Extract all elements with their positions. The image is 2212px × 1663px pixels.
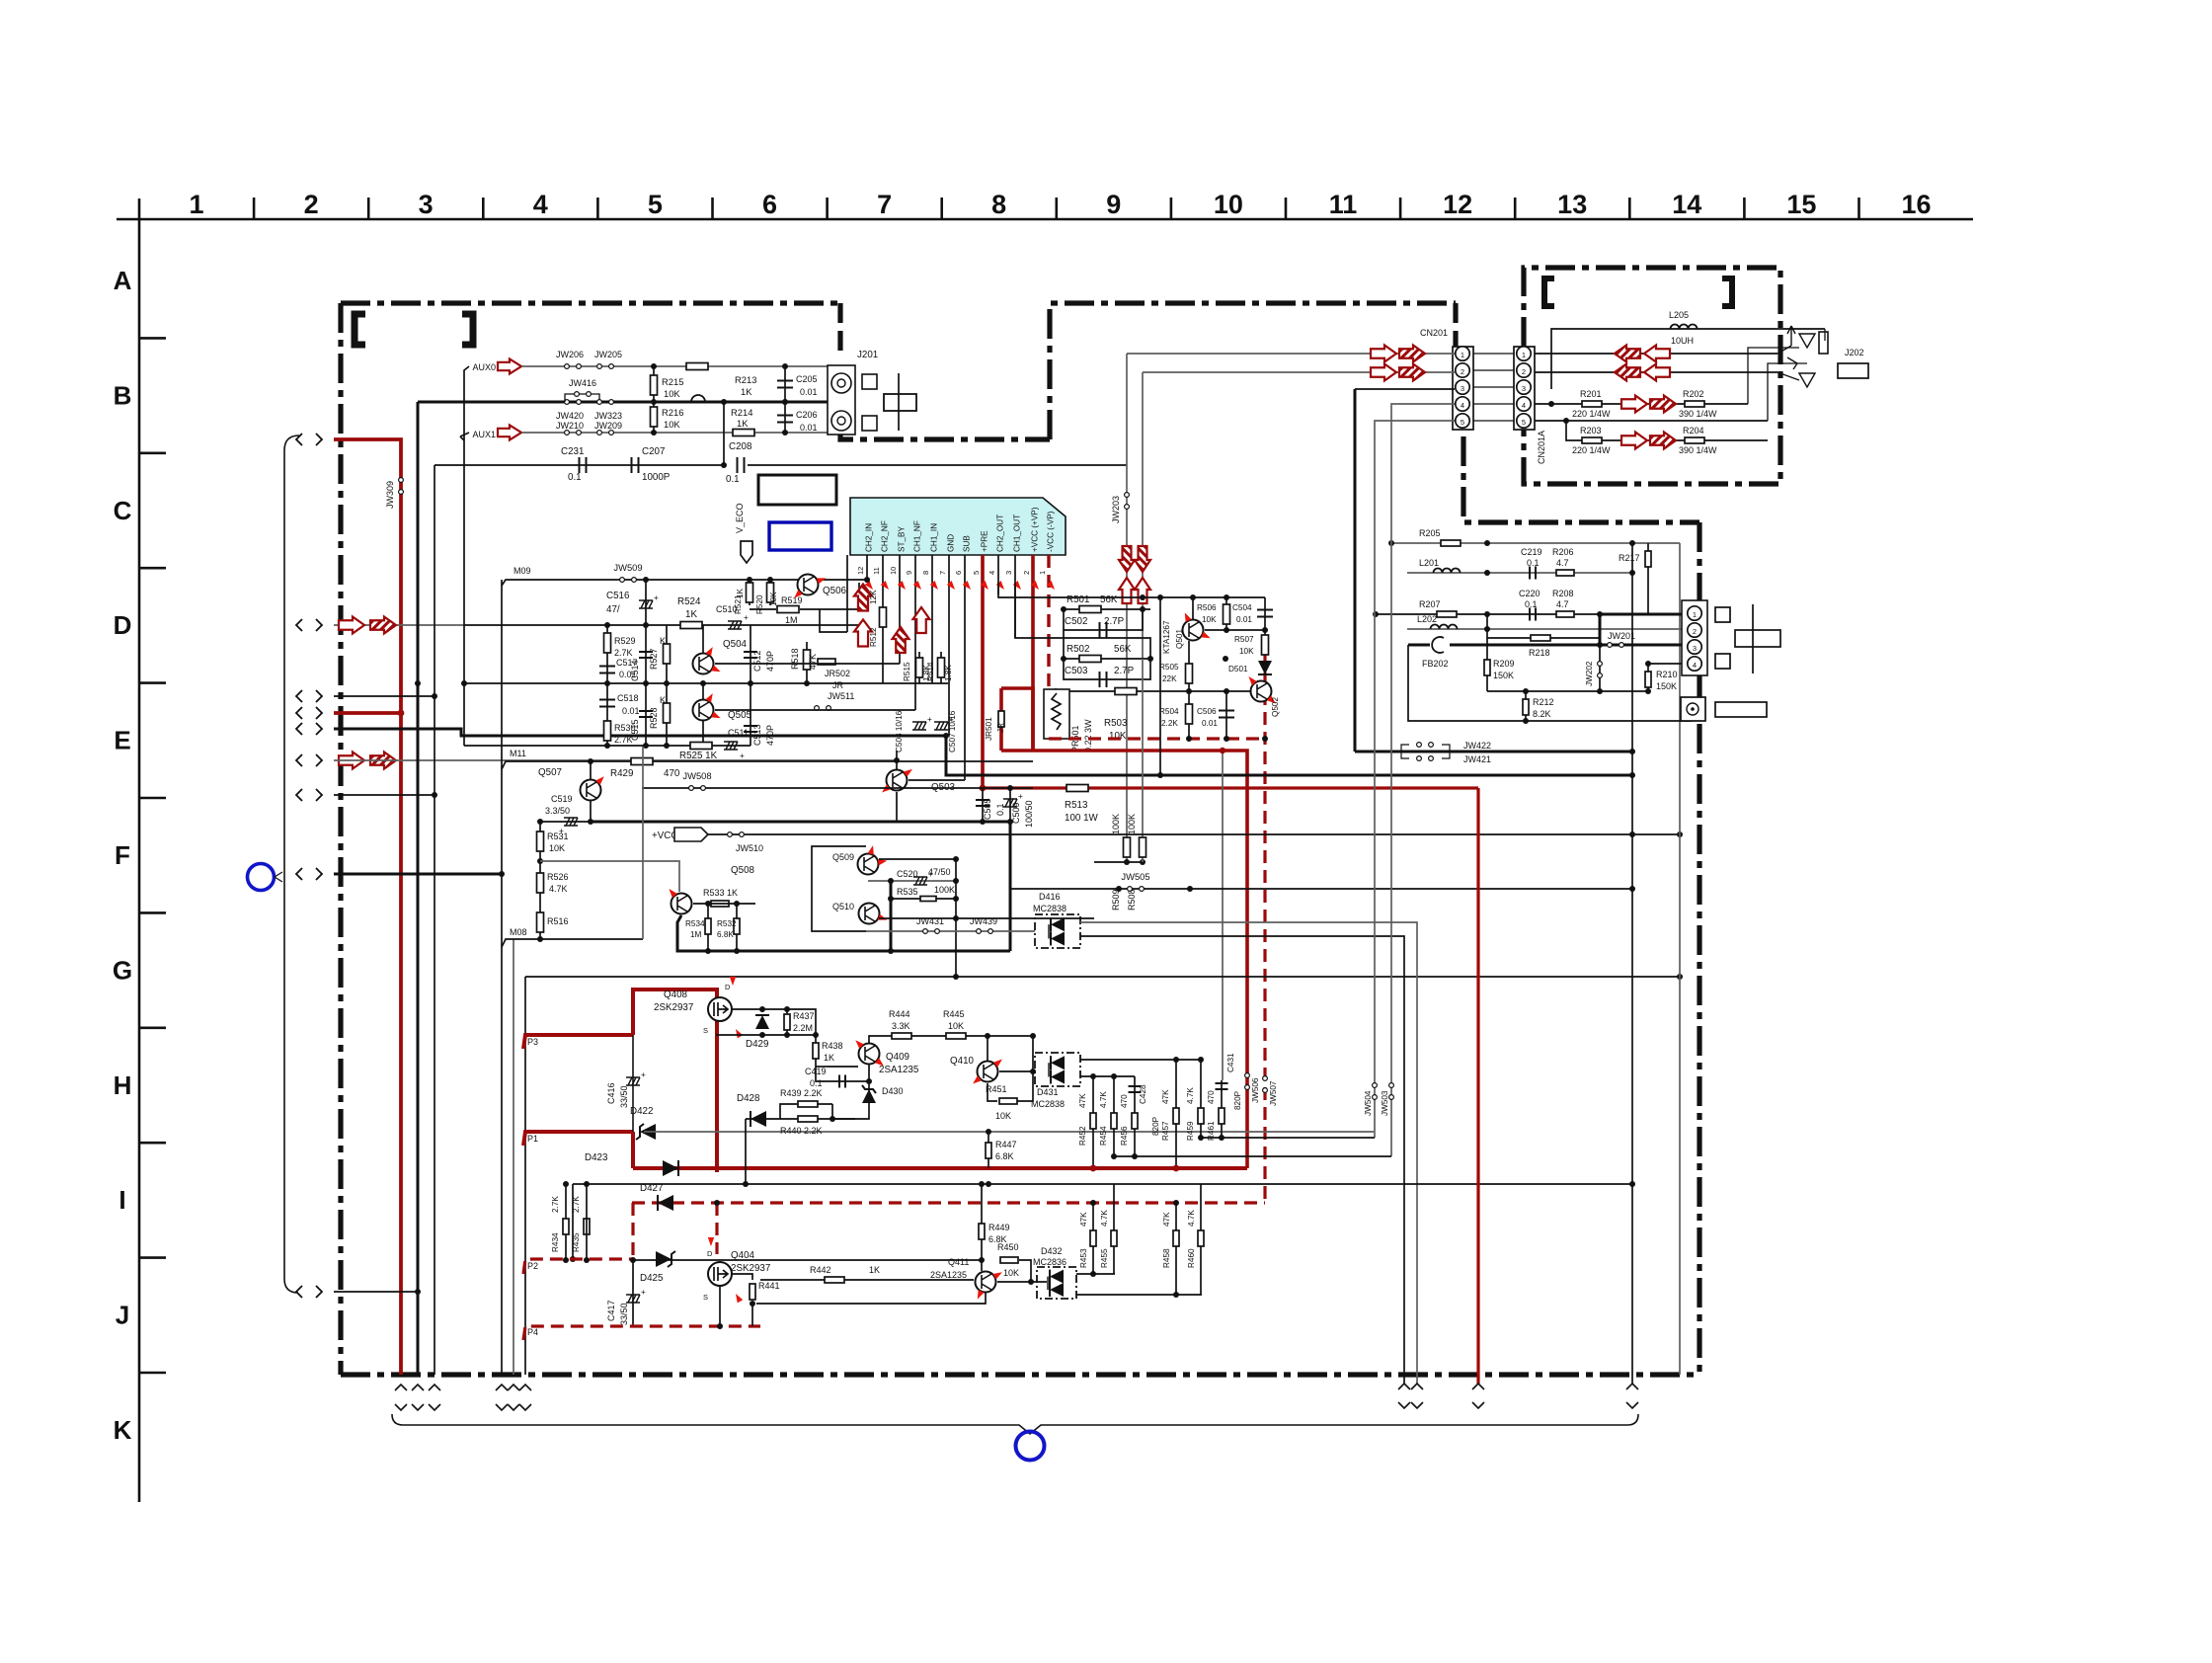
- svg-text:470: 470: [664, 768, 680, 779]
- bracket [ top-right: [1544, 278, 1554, 306]
- svg-text:220 1/4W: 220 1/4W: [1572, 409, 1611, 419]
- svg-text:4.7K: 4.7K: [1100, 1210, 1109, 1227]
- svg-text:470P: 470P: [765, 651, 775, 672]
- wire AUX1: [521, 432, 834, 434]
- resistor R450: [1000, 1257, 1018, 1263]
- svg-text:C513: C513: [752, 724, 762, 746]
- svg-text:2SK2937: 2SK2937: [654, 1002, 693, 1013]
- svg-text:10K: 10K: [1239, 647, 1254, 656]
- svg-text:0.1: 0.1: [726, 474, 740, 485]
- svg-text:C419: C419: [805, 1067, 827, 1076]
- svg-text:1.8K: 1.8K: [944, 665, 953, 681]
- svg-text:D427: D427: [640, 1183, 663, 1194]
- svg-text:JW509: JW509: [613, 562, 642, 573]
- off-page chevron r3: [296, 690, 322, 702]
- resistor R206: [1556, 570, 1574, 576]
- svg-text:4: 4: [1461, 401, 1464, 410]
- bus D row: [464, 624, 859, 626]
- svg-text:150K: 150K: [1493, 671, 1514, 680]
- svg-text:C512: C512: [752, 650, 762, 672]
- svg-text:C515: C515: [630, 719, 640, 741]
- capacitor C504: [1264, 597, 1266, 630]
- svg-text:10K: 10K: [664, 419, 680, 430]
- frame left column: [138, 198, 141, 1502]
- svg-text:2SA1235: 2SA1235: [930, 1270, 967, 1280]
- capacitor C513: [750, 683, 751, 746]
- svg-text:0.1: 0.1: [1525, 599, 1538, 609]
- arrow open JW203a: [1119, 578, 1135, 603]
- svg-text:D501: D501: [1228, 665, 1248, 673]
- jumper JW416: [565, 394, 599, 402]
- bus E2 row: [464, 745, 750, 747]
- thick wire Q508 out: [890, 881, 893, 951]
- border right edge: [1697, 522, 1701, 1375]
- resistor JR502: [818, 659, 835, 665]
- resistor R208: [1556, 611, 1574, 617]
- border main block bottom edge: [341, 1372, 1698, 1377]
- resistor R439: [780, 1104, 832, 1119]
- capacitor C520: [868, 880, 956, 882]
- svg-text:R444: R444: [889, 1009, 910, 1019]
- svg-text:4.7K: 4.7K: [1099, 1091, 1108, 1108]
- svg-text:33/50: 33/50: [619, 1085, 629, 1108]
- resistor R509: [1124, 837, 1131, 857]
- svg-text:+VCC (+VP): +VCC (+VP): [1031, 507, 1040, 552]
- box Q508 bracket: [812, 846, 866, 931]
- jumper JW203: [1125, 493, 1130, 510]
- svg-text:R518: R518: [790, 648, 800, 670]
- svg-text:H: H: [114, 1070, 132, 1100]
- capacitor C512: [750, 625, 751, 683]
- svg-text:R213: R213: [735, 374, 756, 385]
- red power rail top: [633, 990, 717, 1172]
- svg-text:Q506: Q506: [823, 586, 847, 596]
- capacitor C502: [1064, 609, 1143, 630]
- svg-text:JR: JR: [996, 723, 1005, 733]
- svg-text:CH2_IN: CH2_IN: [865, 523, 874, 552]
- resistor R435: [586, 1203, 588, 1259]
- long vertical wire x520: [513, 939, 514, 1375]
- svg-text:3: 3: [1693, 644, 1697, 653]
- svg-text:6.8K: 6.8K: [995, 1151, 1014, 1161]
- svg-text:R456: R456: [1120, 1126, 1129, 1146]
- svg-text:3: 3: [1461, 384, 1464, 393]
- svg-text:R512: R512: [869, 627, 878, 647]
- svg-text:10K: 10K: [1202, 615, 1217, 624]
- svg-text:3: 3: [1004, 571, 1013, 575]
- svg-text:14: 14: [1672, 190, 1701, 219]
- diode D428: [746, 1118, 855, 1120]
- border J201 notch: [837, 303, 842, 356]
- wire Q509 collector: [879, 858, 956, 860]
- arrow hatch ja1: [1615, 346, 1640, 362]
- svg-text:R503: R503: [1104, 718, 1128, 729]
- svg-text:5: 5: [1461, 418, 1464, 427]
- svg-text:M09: M09: [513, 566, 531, 576]
- svg-text:D428: D428: [737, 1093, 760, 1104]
- svg-text:100 1W: 100 1W: [1065, 813, 1099, 824]
- mosfet Q408: [708, 997, 732, 1021]
- arrow hatch D: [370, 617, 396, 634]
- svg-text:AUX1: AUX1: [472, 430, 496, 439]
- svg-text:0.01: 0.01: [622, 706, 640, 716]
- svg-text:JW439: JW439: [970, 916, 997, 926]
- svg-text:150K: 150K: [1656, 681, 1677, 691]
- arrow open D-row right2: [913, 607, 930, 633]
- vertical x1653: [1631, 543, 1633, 1375]
- svg-text:JW511: JW511: [828, 691, 854, 701]
- resistor R533: [711, 901, 729, 907]
- resistor R461: [1221, 1080, 1223, 1138]
- svg-text:2: 2: [1693, 627, 1697, 636]
- IC pin 11 stub: [882, 555, 884, 683]
- resistor R445: [946, 1033, 966, 1039]
- svg-text:100/50: 100/50: [1024, 800, 1034, 828]
- svg-text:JW421: JW421: [1463, 754, 1491, 764]
- arrow hatch r203: [1650, 433, 1676, 449]
- bottom exit wires left: [395, 1385, 407, 1410]
- svg-text:I: I: [118, 1185, 125, 1215]
- svg-text:R453: R453: [1079, 1248, 1088, 1268]
- svg-text:D: D: [725, 983, 731, 991]
- capacitor C431: [1216, 1083, 1228, 1089]
- arrow open ja2: [1644, 364, 1670, 381]
- svg-text:16: 16: [1901, 190, 1931, 219]
- svg-text:2: 2: [304, 190, 319, 219]
- svg-text:JW309: JW309: [385, 481, 395, 509]
- resistor R513: [1066, 785, 1088, 792]
- resistor R534: [707, 904, 709, 951]
- resistor R452: [1092, 1076, 1094, 1168]
- arrow open pin12: [854, 620, 872, 647]
- svg-text:2.2K: 2.2K: [1161, 719, 1178, 728]
- svg-text:R435: R435: [572, 1232, 581, 1252]
- bus thick black y745: [946, 736, 1632, 775]
- wire AUX0: [464, 366, 469, 440]
- svg-text:CH1_NF: CH1_NF: [913, 520, 922, 552]
- resistor R217: [1647, 543, 1649, 573]
- wire chevron D row with arrows: [334, 624, 464, 626]
- svg-text:47/50: 47/50: [928, 867, 951, 877]
- svg-text:4: 4: [987, 571, 996, 575]
- svg-text:JW503: JW503: [1381, 1090, 1389, 1116]
- svg-text:15: 15: [1786, 190, 1816, 219]
- resistor R440: [798, 1116, 818, 1122]
- svg-text:470P: 470P: [765, 725, 775, 746]
- diode D427: [658, 1195, 673, 1211]
- resistor R449: [981, 1184, 983, 1271]
- svg-text:5: 5: [972, 571, 981, 575]
- wire Q404 source: [719, 1286, 721, 1326]
- svg-text:JW431: JW431: [916, 916, 944, 926]
- long vertical wire x470 from AUX1: [460, 436, 464, 746]
- svg-text:0.1: 0.1: [1527, 558, 1540, 568]
- svg-text:R204: R204: [1683, 426, 1704, 436]
- inductor L205: [1551, 329, 1825, 389]
- svg-text:J202: J202: [1845, 348, 1864, 357]
- vertical x870 wires from IC: [820, 583, 859, 609]
- bus y845 extension: [1629, 831, 1635, 837]
- svg-text:R218: R218: [1529, 648, 1550, 658]
- long vertical wire x440: [434, 465, 435, 1375]
- svg-text:Q501: Q501: [1175, 629, 1184, 649]
- capacitor C206: [784, 402, 786, 433]
- resistor R526: [539, 861, 541, 904]
- svg-text:R509: R509: [1111, 889, 1121, 911]
- svg-text:4.7K: 4.7K: [1186, 1087, 1195, 1104]
- bias network frame wire: [1159, 597, 1161, 775]
- jumper JW439: [977, 929, 993, 934]
- svg-text:JW420: JW420: [556, 411, 584, 421]
- arrow open E: [339, 752, 364, 769]
- thick vertical x1620: [1599, 614, 1602, 645]
- svg-text:1K: 1K: [736, 588, 745, 598]
- svg-text:C416: C416: [606, 1082, 616, 1104]
- resistor R218: [1487, 637, 1600, 639]
- thick vertical x1023: [1009, 822, 1012, 951]
- svg-text:0.01: 0.01: [1236, 615, 1252, 624]
- border main block left edge: [338, 303, 343, 1375]
- svg-text:D422: D422: [630, 1106, 653, 1117]
- capacitor C505: [982, 788, 984, 822]
- capacitor C208: [738, 457, 745, 473]
- svg-text:6: 6: [762, 190, 777, 219]
- svg-text:R532: R532: [717, 919, 737, 928]
- wire y1152: [1201, 1137, 1375, 1139]
- svg-text:R526: R526: [547, 872, 569, 882]
- bottom exit wires right: [1476, 788, 1479, 1384]
- wire chevron J: [334, 1291, 418, 1293]
- wire x1238 to C431: [1222, 751, 1224, 1080]
- diode D425 zener: [656, 1251, 675, 1267]
- resistor R515: [918, 652, 920, 683]
- svg-text:K: K: [114, 1415, 132, 1445]
- svg-text:0.1: 0.1: [568, 472, 582, 483]
- svg-text:R209: R209: [1493, 659, 1515, 669]
- resistor R524: [680, 622, 702, 629]
- wire CH2_OUT to R501: [998, 583, 1265, 597]
- svg-text:C516: C516: [606, 591, 630, 601]
- svg-text:Q505: Q505: [728, 710, 752, 721]
- jumper JW206: [565, 364, 582, 369]
- svg-text:C207: C207: [642, 446, 665, 457]
- ferrite FB202: [1408, 644, 1430, 647]
- resistor R504: [1188, 691, 1190, 739]
- svg-text:R525 1K: R525 1K: [679, 751, 718, 761]
- svg-text:R458: R458: [1162, 1248, 1171, 1268]
- svg-text:CH1_IN: CH1_IN: [930, 523, 939, 552]
- wire SUB to Q503: [908, 779, 965, 781]
- diode D423 red row: [633, 1166, 1247, 1170]
- arrow open cn1: [1371, 346, 1396, 362]
- bus G row: [525, 976, 1679, 978]
- wires CN201 left side: [1127, 353, 1455, 355]
- svg-text:A: A: [114, 266, 132, 295]
- wire CH1_OUT row: [1015, 583, 1150, 659]
- svg-text:6.8K: 6.8K: [717, 930, 734, 939]
- resistor R521: [749, 580, 750, 605]
- red PRE junction: [980, 785, 987, 792]
- svg-text:C507 10/16: C507 10/16: [948, 710, 957, 752]
- svg-text:D: D: [707, 1249, 713, 1258]
- capacitor C519: [590, 801, 592, 822]
- svg-text:C220: C220: [1519, 589, 1540, 598]
- jumper JW504: [1373, 1083, 1378, 1100]
- resistor R454: [1113, 1076, 1115, 1156]
- off-page chevron r6: [296, 754, 322, 766]
- connector CN201 left: [1453, 347, 1473, 430]
- svg-text:FB202: FB202: [1422, 659, 1449, 669]
- crossover hop: [691, 395, 705, 402]
- cable bundle brace: [284, 436, 299, 1293]
- svg-text:4: 4: [1693, 661, 1697, 670]
- svg-text:R451: R451: [986, 1084, 1007, 1094]
- svg-text:R438: R438: [822, 1041, 843, 1051]
- wire C231 row: [434, 464, 724, 466]
- svg-text:R203: R203: [1580, 426, 1602, 436]
- long vertical x1701: [1679, 543, 1681, 1375]
- jumper JW209: [597, 431, 614, 436]
- wire to Q511 base: [540, 861, 679, 892]
- arrow open r203: [1621, 433, 1647, 449]
- svg-text:8: 8: [921, 571, 930, 575]
- svg-text:S: S: [703, 1293, 708, 1302]
- svg-text:MC2838: MC2838: [1033, 904, 1066, 913]
- capacitor C219: [1530, 567, 1536, 580]
- thick red +VCC path: [1001, 688, 1033, 751]
- arrow hatch JW203b: [1135, 546, 1150, 572]
- capacitor C518: [606, 683, 608, 746]
- svg-text:2: 2: [1461, 367, 1464, 376]
- inductor L201: [1407, 572, 1632, 574]
- svg-text:D: D: [114, 610, 132, 640]
- IC pin 2 stub: [1031, 555, 1035, 751]
- svg-text:+: +: [1018, 792, 1023, 801]
- svg-text:C205: C205: [796, 374, 818, 384]
- resistor R518: [806, 642, 808, 683]
- svg-text:R205: R205: [1419, 528, 1441, 538]
- arrow AUX0: [498, 359, 521, 374]
- svg-text:R529: R529: [614, 636, 636, 646]
- svg-text:12: 12: [1443, 190, 1472, 219]
- resistor R451: [987, 1083, 997, 1101]
- svg-text:L205: L205: [1669, 310, 1689, 320]
- svg-text:R460: R460: [1187, 1248, 1196, 1268]
- transistor Q410: [978, 1062, 998, 1082]
- border right edge via CN201: [1453, 303, 1458, 348]
- svg-text:470: 470: [1120, 1094, 1129, 1108]
- resistor R202: [1685, 401, 1704, 407]
- wire y1172: [1114, 1155, 1391, 1157]
- svg-text:R434: R434: [551, 1232, 560, 1252]
- resistor R455: [1113, 1184, 1115, 1274]
- IC hybrid block: [850, 498, 1066, 555]
- wire chevron E4 with arrows: [334, 759, 897, 761]
- svg-text:C231: C231: [561, 446, 584, 457]
- svg-text:4: 4: [533, 190, 548, 219]
- bus y1199: [573, 1183, 1632, 1185]
- off-page chevron r5: [296, 723, 322, 735]
- capacitor C506: [1225, 691, 1227, 739]
- svg-text:8: 8: [991, 190, 1006, 219]
- capacitor C207: [632, 457, 639, 473]
- resistor R213: [686, 363, 708, 370]
- svg-text:JW508: JW508: [682, 770, 711, 781]
- resistor R203: [1582, 437, 1602, 443]
- resistor R501: [1064, 608, 1150, 610]
- svg-text:C503: C503: [1065, 666, 1088, 676]
- resistor R210: [1647, 664, 1649, 691]
- IC box blank: [758, 475, 836, 505]
- wire Q502 base row: [1160, 690, 1250, 692]
- svg-text:JW505: JW505: [1121, 871, 1149, 882]
- capacitor C503: [1064, 659, 1150, 679]
- IC pin 12 stub: [866, 555, 868, 580]
- svg-text:1K: 1K: [824, 1053, 834, 1063]
- resistor R458: [1175, 1203, 1177, 1295]
- svg-text:1: 1: [1693, 610, 1697, 619]
- diode D430 zener: [868, 1065, 870, 1104]
- svg-text:7: 7: [877, 190, 892, 219]
- svg-text:CN201A: CN201A: [1537, 431, 1546, 464]
- svg-text:2.7P: 2.7P: [1104, 616, 1125, 627]
- resistor R215: [653, 366, 655, 402]
- arrow open cn2: [1371, 364, 1396, 381]
- svg-text:C: C: [114, 496, 132, 525]
- svg-text:JW205: JW205: [594, 350, 622, 359]
- thick wire to CN202 pin1: [1600, 613, 1682, 616]
- svg-text:C502: C502: [1065, 616, 1087, 627]
- svg-text:33/50: 33/50: [619, 1303, 629, 1325]
- arrow open JW203b: [1135, 578, 1150, 603]
- svg-text:JW416: JW416: [569, 378, 596, 388]
- jumper JW309: [399, 478, 404, 495]
- arrow hatch r201: [1650, 396, 1676, 413]
- resistor R456: [1134, 1076, 1136, 1156]
- svg-text:CH1_OUT: CH1_OUT: [1013, 515, 1022, 552]
- svg-text:R507: R507: [1234, 635, 1254, 644]
- wire pin4 R201 row: [1548, 401, 1554, 407]
- IC pin 6 stub: [964, 555, 966, 780]
- wires from D416: [1080, 922, 1417, 1385]
- resistor R214: [733, 430, 754, 436]
- svg-text:CH2_OUT: CH2_OUT: [996, 515, 1005, 552]
- svg-text:12: 12: [856, 567, 865, 575]
- transistor Q506: [798, 575, 819, 595]
- IC pin 10 stub: [899, 555, 901, 664]
- svg-text:R535: R535: [897, 887, 918, 897]
- transistor Q510: [859, 904, 880, 924]
- IC pin 8 stub: [931, 555, 933, 683]
- bracket ] main: [462, 314, 473, 345]
- svg-text:K: K: [660, 695, 666, 705]
- arrow AUX1: [498, 426, 521, 440]
- bracket ] top-right: [1722, 278, 1732, 306]
- svg-text:47K: 47K: [1161, 1089, 1170, 1104]
- svg-text:390 1/4W: 390 1/4W: [1679, 445, 1717, 455]
- arrow hatch ja2: [1615, 364, 1640, 381]
- jumper JW323: [597, 400, 614, 405]
- svg-text:CH2_NF: CH2_NF: [881, 520, 890, 552]
- svg-text:E: E: [114, 726, 130, 755]
- ladder2 bottom output wire: [1076, 1294, 1202, 1296]
- svg-text:L201: L201: [1419, 558, 1439, 568]
- svg-text:ST_BY: ST_BY: [898, 526, 907, 552]
- svg-text:C504: C504: [1232, 603, 1252, 612]
- svg-text:13: 13: [1557, 190, 1587, 219]
- svg-text:C518: C518: [617, 693, 639, 703]
- svg-text:Q408: Q408: [664, 990, 688, 1000]
